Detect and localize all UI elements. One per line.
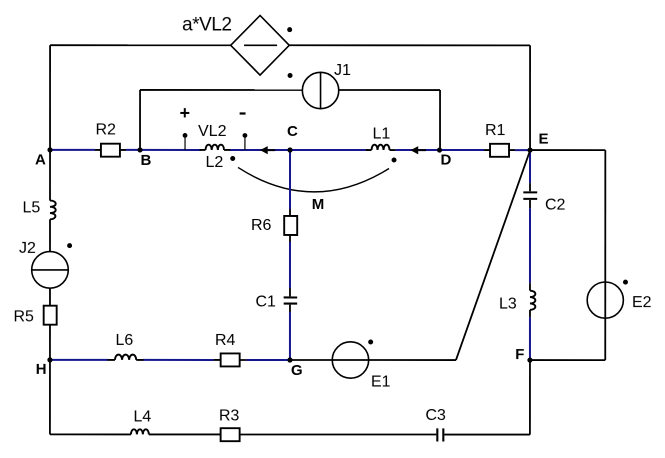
wire B riser to J1 [140,89,302,91]
resistor R4 [221,353,240,366]
svg-text:C2: C2 [545,197,566,214]
lead inductor L3 [529,283,531,317]
label E1 [371,374,391,391]
wire main line A to E (blue) [50,149,530,151]
label R4 [215,332,236,349]
wire bottom to L4 [50,433,131,435]
lead inductor L1 [366,149,396,151]
wire L4 to R3 [149,433,220,435]
svg-text:A: A [35,151,46,168]
node H [36,357,53,378]
lead resistor R2 [95,149,126,151]
lead capacitor C1 [289,288,291,312]
wire J1 to D riser [339,89,440,91]
svg-text:L3: L3 [499,296,517,313]
inductor L2 [206,145,225,150]
wire A up to top-left corner [49,45,51,150]
wire dependent source to top-right corner [289,44,530,46]
svg-text:E: E [539,131,549,148]
svg-text:C: C [287,123,298,140]
svg-text:B: B [141,152,152,169]
wire A down to L5 [49,150,51,201]
wire D riser down to node D [439,90,441,150]
dependent source a*VL2 (diamond) [231,15,290,75]
resistor R3 [221,428,240,441]
svg-text:R5: R5 [13,308,34,325]
polarity dot at dependent source [287,27,292,32]
polarity dot J2 [67,243,72,248]
svg-text:R3: R3 [219,407,240,424]
resistor R5 [44,306,57,325]
label E2 [632,294,652,311]
lead inductor L2 [200,149,231,151]
wire top-left horizontal to dependent source [50,44,231,46]
label M [312,196,325,213]
inductor L1 [372,145,390,150]
label R2 [96,121,117,138]
svg-text:H: H [36,361,47,378]
lead resistor R4 [214,359,247,361]
svg-text:C3: C3 [425,407,446,424]
svg-text:L2: L2 [206,154,224,171]
wire E down to F (blue) [529,150,531,360]
label R5 [13,308,34,325]
pin VL2 minus stub [243,133,248,150]
wire G right through E1 to diagonal [290,359,456,361]
resistor R1 [490,144,509,157]
capacitor C3 [437,428,443,441]
resistor R2 [101,144,120,157]
capacitor C2 [523,192,537,199]
polarity dot E1 [368,340,373,345]
svg-text:F: F [515,346,524,363]
wire bottom-right corner up to F [529,360,531,434]
label L6 [115,332,133,349]
label J2 [19,240,36,257]
inductor L5 [50,201,56,220]
label R1 [485,122,506,139]
inductor L3 [530,291,535,310]
polarity dot L1 [392,158,397,163]
wire J2 to R5 [49,288,51,306]
label plus [180,103,191,123]
label R6 [251,217,272,234]
label R3 [219,407,240,424]
label L3 [499,296,517,313]
svg-text:R6: R6 [251,217,272,234]
label C1 [255,293,276,310]
lead resistor R1 [484,149,515,151]
wire right branch to F [530,359,605,361]
wire H to G (blue) [50,359,290,361]
wire B riser [139,90,141,150]
current source J2 [32,252,69,289]
node C [287,123,298,153]
wire E to right branch corner [530,149,605,151]
wire top-right corner down to node E [529,45,531,150]
wire R5 to H [49,325,51,360]
label L5 [23,199,41,216]
svg-text:L4: L4 [133,408,151,425]
capacitor C1 [284,297,298,303]
node E [527,131,548,153]
svg-text:R2: R2 [96,121,117,138]
svg-text:L1: L1 [373,126,391,143]
lead capacitor C2 [529,183,531,208]
inductor L6 [115,355,136,360]
mutual inductance arc M [238,167,389,191]
label C2 [545,197,566,214]
svg-text:E1: E1 [371,374,391,391]
svg-text:M: M [312,196,325,213]
wire right branch down through E2 [604,150,606,360]
svg-text:C1: C1 [255,293,276,310]
wire C down to G (blue) [289,150,291,360]
node F [515,346,532,363]
current source J1 [302,72,338,108]
svg-text:E2: E2 [632,294,652,311]
label L2 [206,154,224,171]
svg-text:G: G [291,362,303,379]
svg-text:L6: L6 [115,332,133,349]
svg-text:J2: J2 [19,240,36,257]
svg-text:+: + [180,103,191,123]
label L1 [373,126,391,143]
label VL2 [198,123,227,140]
voltage source E2 [587,282,623,318]
voltage source E1 [332,342,368,378]
inductor L4 [131,429,149,434]
svg-text:R1: R1 [485,122,506,139]
wire C3 to bottom-right corner [444,434,530,436]
wire H down to bottom-left corner [49,360,51,435]
svg-text:D: D [441,152,452,169]
polarity dot below dependent source [288,73,293,78]
label J1 [334,62,351,79]
node B [137,147,151,168]
label L4 [133,408,151,425]
polarity dot E2 [623,280,628,285]
label C3 [425,407,446,424]
svg-text:a*VL2: a*VL2 [182,14,232,35]
current arrow on wire left of D [411,146,427,154]
label a*VL2 [182,14,232,35]
svg-text:L5: L5 [23,199,41,216]
polarity dot L2 [230,156,235,161]
label minus [240,112,246,114]
pin VL2 plus stub [183,133,188,150]
current arrow on wire left of C [260,146,275,154]
node G [287,357,302,378]
lead resistor R6 [289,209,291,242]
wire diagonal up to E [456,151,530,361]
wire R3 to C3 [240,433,436,435]
node A [35,147,53,168]
wire L5 to J2 [49,219,51,251]
svg-text:VL2: VL2 [198,123,227,140]
svg-text:R4: R4 [215,332,236,349]
node D [437,147,452,168]
resistor R6 [284,216,297,235]
svg-text:J1: J1 [334,62,351,79]
lead inductor L6 [107,359,143,361]
